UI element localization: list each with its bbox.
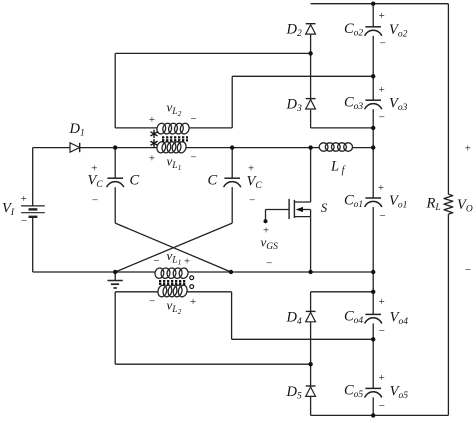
coupled inductor T1 core <box>162 137 188 140</box>
svg-text:VI: VI <box>2 201 15 219</box>
wire L2b right to Co4/Co5 junction <box>232 338 374 340</box>
wire L2b left loop vertical <box>114 292 116 364</box>
capacitor C left <box>107 178 124 187</box>
wire MOSFET source node to Co1 bottom <box>311 271 374 273</box>
wire D1 cathode to node B <box>80 147 115 149</box>
svg-text:vL1: vL1 <box>167 153 182 172</box>
wire L2b left to D4/D5 junction <box>115 363 310 365</box>
wire rail seg junction to Co3 <box>372 76 374 100</box>
voltage source V_I battery <box>21 206 45 217</box>
wire rail seg Co1 to yE <box>372 207 374 272</box>
svg-text:+: + <box>183 255 190 267</box>
svg-text:+: + <box>378 372 385 384</box>
svg-text:+: + <box>378 10 385 22</box>
wire D2 anode to node A <box>310 35 312 54</box>
svg-text:Vo2: Vo2 <box>389 22 408 40</box>
svg-text:−: − <box>190 113 197 125</box>
wire node B to L1a winding <box>115 147 157 149</box>
svg-text:+: + <box>90 163 97 175</box>
wire MOSFET drain up <box>310 148 312 202</box>
wire D4 anode to node F <box>310 322 312 364</box>
junction Lf right on rail <box>371 145 375 149</box>
wire L2a line right stub <box>189 127 232 129</box>
svg-text:+: + <box>148 153 155 165</box>
wire top loop horizontal (x2 top to node A) <box>115 52 310 54</box>
coupled inductor T2 winding L2 (bottom) <box>157 284 189 298</box>
svg-text:D2: D2 <box>286 22 302 40</box>
svg-text:vL2: vL2 <box>167 100 182 119</box>
junction Co1 bottom <box>371 270 375 274</box>
junction node C (C right tap) <box>230 145 234 149</box>
junction top rail <box>371 2 375 6</box>
wire rail yC to yD <box>372 128 374 148</box>
inductor Lf <box>319 142 353 151</box>
wire rail seg Co3 down <box>372 109 374 128</box>
wire rail seg yG to Co5 <box>372 339 374 388</box>
svg-text:vL2: vL2 <box>167 298 182 317</box>
svg-text:Co3: Co3 <box>344 95 363 113</box>
diode D2 <box>306 24 316 34</box>
wire L2b line right stub <box>187 291 232 293</box>
MOSFET S channel bar <box>293 200 295 218</box>
wire right rail lower (R_L to bottom) <box>447 214 449 415</box>
junction node E (cross / C right) <box>229 270 233 274</box>
coupled inductor T2 winding L1 (top) <box>154 267 189 279</box>
svg-text:Vo1: Vo1 <box>389 193 407 211</box>
svg-text:−: − <box>248 195 255 207</box>
ground symbol <box>108 272 123 288</box>
svg-text:+: + <box>20 193 27 205</box>
svg-text:S: S <box>321 201 328 215</box>
capacitor Co5 <box>365 388 382 397</box>
svg-text:VC: VC <box>247 173 263 191</box>
junction D3 anode on rail <box>371 126 375 130</box>
wire D3 anode down <box>310 110 312 128</box>
svg-text:L f: L f <box>330 158 346 176</box>
coupled inductor T2 core <box>159 281 187 284</box>
wire bottom (D5 anode run to right rail) <box>311 414 449 416</box>
svg-text:Co2: Co2 <box>344 21 363 39</box>
junction Co5 bottom <box>371 413 375 417</box>
wire V_I top lead <box>32 148 34 206</box>
wire node A to D3 cathode <box>310 53 312 98</box>
svg-text:D1: D1 <box>69 121 85 139</box>
wire rail seg Co4 to yG <box>372 323 374 339</box>
diode D4 <box>306 311 316 321</box>
T2 dot mark upper (circle) <box>190 276 194 280</box>
capacitor Co1 <box>365 198 382 207</box>
T2 dot mark lower (circle) <box>190 285 194 289</box>
junction node B (D1 / C left) <box>113 145 117 149</box>
svg-text:+: + <box>378 84 385 96</box>
svg-text:Vo5: Vo5 <box>390 384 409 402</box>
junction MOSFET source on bottom line <box>308 270 312 274</box>
wire L2b right loop vertical <box>231 292 233 340</box>
MOSFET gate wire <box>266 210 290 221</box>
capacitor C right <box>224 178 241 187</box>
capacitor Co3 <box>365 100 382 109</box>
svg-text:vGS: vGS <box>261 235 279 253</box>
svg-text:C: C <box>208 172 218 188</box>
junction node A (D2 anode) <box>308 51 312 55</box>
junction Co2/Co3 <box>371 74 375 78</box>
svg-text:−: − <box>190 151 197 163</box>
wire D4 cathode horizontal <box>311 291 374 293</box>
svg-text:Vo3: Vo3 <box>389 95 408 113</box>
coupled inductor T1 winding L1 (bottom) <box>156 141 187 154</box>
wire left C top lead <box>114 148 116 179</box>
junction node F (D4/D5) <box>308 362 312 366</box>
svg-text:RL: RL <box>426 196 441 214</box>
wire rail seg Co2 to junction <box>372 36 374 77</box>
wire mid loop horizontal (x3 to Co2/Co3 junction) <box>232 75 373 77</box>
svg-text:VO: VO <box>457 197 473 215</box>
svg-text:D4: D4 <box>286 309 302 327</box>
coupled inductor T1 winding L2 (top) <box>156 122 190 135</box>
wire right rail upper (top to R_L) <box>447 4 449 195</box>
wire rail seg yF to Co4 <box>372 292 374 315</box>
wire Lf to rail node <box>353 147 374 149</box>
wire rail seg Co5 to bottom <box>372 397 374 415</box>
wire rail stub yE to yF <box>372 272 374 292</box>
diode D1 <box>70 143 80 152</box>
svg-text:Vo4: Vo4 <box>390 310 409 328</box>
diode D3 <box>306 99 316 109</box>
wire right C top lead <box>231 148 233 179</box>
svg-text:+: + <box>464 143 471 155</box>
capacitor Co2 <box>365 27 382 36</box>
svg-text:+: + <box>377 182 384 194</box>
junction node D (Lf left / drain) <box>308 145 312 149</box>
svg-text:−: − <box>148 296 155 308</box>
wire top rail (D2 cathode to right rail) <box>311 3 449 5</box>
svg-text:−: − <box>378 112 385 124</box>
svg-text:−: − <box>378 325 385 337</box>
svg-text:−: − <box>20 215 27 227</box>
wire D4 cathode down <box>310 292 312 312</box>
junction D4 wire on rail <box>371 290 375 294</box>
wire mid loop vertical (x3, yB to yC) <box>231 76 233 128</box>
svg-text:D3: D3 <box>286 97 302 115</box>
junction ground node <box>113 270 117 274</box>
junction Co4/Co5 <box>371 337 375 341</box>
wire top loop vertical left <box>114 53 116 128</box>
wire main line V_I to D1 <box>33 147 70 149</box>
wire MOSFET source down <box>310 217 312 272</box>
diode D5 <box>306 386 316 396</box>
T1 dot mark lower (asterisk) <box>151 140 157 147</box>
wire node D to Lf <box>311 147 320 149</box>
wire node E to MOSFET source node <box>231 271 311 273</box>
T1 dot mark upper (asterisk) <box>151 130 157 137</box>
wire rail seg top node to Co2 <box>372 4 374 27</box>
svg-text:−: − <box>91 195 98 207</box>
svg-text:−: − <box>152 255 159 267</box>
wire ground node to L1b winding <box>115 271 155 273</box>
capacitor Co4 <box>365 314 382 323</box>
wire right C bottom lead <box>231 187 233 223</box>
svg-text:D5: D5 <box>286 384 302 402</box>
MOSFET S drain tap <box>294 201 310 203</box>
wire L1a winding to node C <box>186 147 232 149</box>
svg-text:−: − <box>379 38 386 50</box>
wire rail seg yD to Co1 <box>372 148 374 198</box>
wire D3 anode to rail <box>311 127 374 129</box>
svg-text:Co4: Co4 <box>344 309 363 327</box>
MOSFET S body arrow <box>296 207 311 217</box>
wire L2a line left stub <box>115 127 157 129</box>
svg-text:C: C <box>130 172 140 188</box>
svg-text:+: + <box>189 296 196 308</box>
wire node F to D5 cathode <box>310 364 312 386</box>
svg-text:−: − <box>464 264 471 276</box>
MOSFET S gate bar <box>288 199 290 219</box>
svg-text:+: + <box>378 296 385 308</box>
wire D5 anode down <box>310 396 312 415</box>
svg-text:Co1: Co1 <box>344 192 363 210</box>
wire bottom line V_I to ground node <box>33 271 116 273</box>
svg-text:−: − <box>265 257 272 269</box>
wire L1b winding to node E <box>188 271 231 273</box>
gate terminal dot <box>264 219 268 223</box>
svg-text:+: + <box>247 163 254 175</box>
svg-text:+: + <box>148 114 155 126</box>
wire V_I bottom lead <box>32 217 34 272</box>
MOSFET S source tap <box>294 216 310 218</box>
wire cross diagonal right-cap to ground node <box>115 223 232 272</box>
svg-text:VC: VC <box>88 173 104 191</box>
wire cross diagonal left-cap to right node <box>115 223 231 272</box>
wire node C to node D <box>232 147 310 149</box>
svg-text:−: − <box>379 210 386 222</box>
wire left C bottom lead <box>114 187 116 223</box>
svg-text:−: − <box>378 400 385 412</box>
svg-text:Co5: Co5 <box>344 383 363 401</box>
resistor R_L <box>444 194 453 214</box>
wire L2b line left stub <box>115 291 158 293</box>
